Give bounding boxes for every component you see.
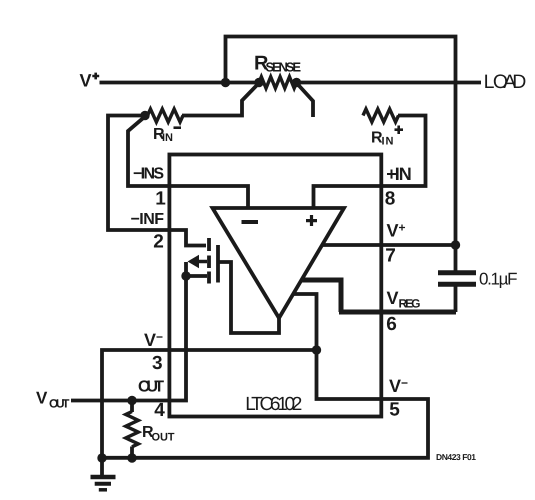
svg-text:1: 1 (155, 189, 166, 210)
svg-text:V−: V− (389, 376, 408, 396)
svg-text:OUT: OUT (138, 379, 164, 396)
svg-text:OUT: OUT (152, 432, 175, 444)
svg-text:4: 4 (154, 400, 165, 421)
svg-text:−INS: −INS (133, 166, 164, 183)
svg-text:7: 7 (385, 246, 396, 267)
svg-text:3: 3 (152, 353, 163, 374)
svg-text:V−: V− (144, 330, 163, 350)
svg-text:2: 2 (153, 232, 164, 253)
svg-text:0.1µF: 0.1µF (479, 270, 518, 289)
svg-text:LTC6102: LTC6102 (245, 394, 302, 415)
svg-text:V: V (36, 389, 48, 408)
svg-text:IN: IN (162, 132, 173, 144)
svg-text:N: N (399, 164, 412, 184)
svg-text:V+: V+ (387, 221, 406, 241)
svg-text:V: V (80, 71, 92, 91)
svg-text:DN423 F01: DN423 F01 (436, 452, 476, 462)
svg-text:5: 5 (389, 400, 400, 421)
svg-text:OUT: OUT (49, 397, 70, 411)
svg-text:SENSE: SENSE (266, 60, 302, 75)
svg-text:−INF: −INF (131, 211, 165, 228)
svg-text:D: D (512, 71, 526, 93)
svg-text:8: 8 (385, 189, 396, 210)
svg-text:VREG: VREG (387, 288, 421, 311)
svg-text:IN: IN (382, 136, 394, 148)
svg-text:6: 6 (386, 314, 397, 335)
